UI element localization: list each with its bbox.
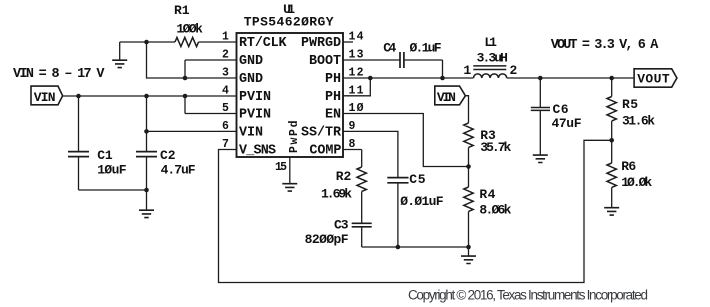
svg-text:SS/TR: SS/TR	[301, 125, 342, 140]
svg-text:VIN: VIN	[437, 90, 456, 105]
svg-text:GND: GND	[239, 72, 263, 87]
svg-text:R2: R2	[336, 169, 352, 184]
svg-text:C4: C4	[383, 41, 396, 56]
svg-text:GND: GND	[239, 54, 263, 69]
svg-text:1Ø.Øk: 1Ø.Øk	[621, 175, 652, 190]
svg-text:14: 14	[349, 31, 364, 44]
svg-text:2: 2	[510, 63, 518, 78]
svg-text:11: 11	[349, 84, 364, 97]
svg-text:4.7uF: 4.7uF	[161, 163, 196, 178]
svg-text:C6: C6	[553, 102, 569, 117]
svg-text:BOOT: BOOT	[309, 54, 341, 69]
svg-text:Copyright © 2016, Texas Instru: Copyright © 2016, Texas Instruments Inco…	[408, 287, 648, 302]
svg-text:RT/CLK: RT/CLK	[239, 36, 288, 51]
svg-text:PVIN: PVIN	[239, 90, 271, 105]
svg-text:VIN = 8 – 17 V: VIN = 8 – 17 V	[13, 67, 105, 82]
svg-text:PVIN: PVIN	[239, 108, 271, 123]
svg-text:PH: PH	[325, 90, 341, 105]
svg-text:9: 9	[349, 120, 356, 133]
svg-text:3: 3	[222, 67, 229, 80]
svg-text:1.69k: 1.69k	[321, 187, 352, 202]
svg-text:8: 8	[349, 138, 356, 151]
svg-text:C3: C3	[334, 218, 349, 233]
svg-text:13: 13	[349, 49, 364, 62]
svg-text:82ØØpF: 82ØØpF	[305, 232, 349, 247]
svg-text:VOUT = 3.3 V, 6 A: VOUT = 3.3 V, 6 A	[551, 38, 659, 53]
svg-text:15: 15	[275, 161, 287, 174]
svg-text:7: 7	[222, 138, 229, 151]
svg-text:6: 6	[222, 120, 229, 133]
svg-text:1: 1	[463, 63, 471, 78]
svg-text:1ØØk: 1ØØk	[176, 21, 203, 36]
svg-text:31.6k: 31.6k	[622, 114, 655, 129]
svg-text:4: 4	[222, 84, 229, 97]
svg-text:47uF: 47uF	[552, 116, 582, 131]
svg-text:VOUT: VOUT	[637, 72, 670, 87]
svg-text:3.3uH: 3.3uH	[477, 51, 508, 66]
svg-text:L1: L1	[484, 35, 497, 50]
svg-text:R1: R1	[174, 3, 190, 18]
svg-text:1Ø: 1Ø	[349, 102, 364, 115]
svg-text:1ØuF: 1ØuF	[97, 163, 127, 178]
svg-text:2: 2	[222, 49, 229, 62]
svg-text:R4: R4	[479, 187, 495, 202]
svg-text:TPS5462ØRGY: TPS5462ØRGY	[244, 15, 334, 30]
svg-text:35.7k: 35.7k	[480, 140, 511, 155]
svg-text:C2: C2	[160, 148, 176, 163]
svg-text:VIN: VIN	[34, 90, 56, 105]
svg-text:5: 5	[222, 102, 229, 115]
svg-text:C1: C1	[97, 148, 113, 163]
svg-text:8.Ø6k: 8.Ø6k	[479, 203, 511, 218]
svg-text:EN: EN	[325, 108, 341, 123]
svg-text:Ø.Ø1uF: Ø.Ø1uF	[400, 194, 443, 209]
svg-text:COMP: COMP	[309, 144, 341, 159]
svg-text:VIN: VIN	[239, 125, 263, 140]
svg-text:Ø.1uF: Ø.1uF	[410, 41, 442, 56]
svg-text:R5: R5	[622, 97, 638, 112]
svg-text:PWRGD: PWRGD	[301, 36, 341, 51]
svg-text:1: 1	[222, 31, 229, 44]
svg-text:C5: C5	[409, 172, 425, 187]
svg-text:PH: PH	[325, 72, 341, 87]
svg-text:PwPd: PwPd	[288, 120, 301, 153]
svg-text:V_SNS: V_SNS	[239, 144, 276, 159]
svg-text:R6: R6	[621, 159, 636, 174]
svg-text:12: 12	[349, 67, 364, 80]
